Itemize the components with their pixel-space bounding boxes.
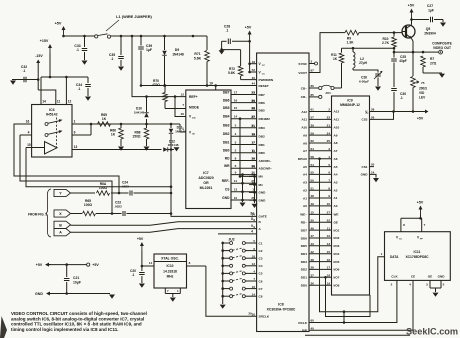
svg-text:DB2: DB2 xyxy=(259,135,265,139)
wire CR stub xyxy=(309,96,319,98)
svg-text:14: 14 xyxy=(371,170,375,174)
svg-text:27: 27 xyxy=(252,115,256,119)
svg-text:MM6264P-12: MM6264P-12 xyxy=(340,103,360,107)
wire +15V rail xyxy=(41,76,88,78)
capacitor C33 xyxy=(84,36,86,47)
svg-text:DD2: DD2 xyxy=(301,268,307,272)
svg-text:IC8: IC8 xyxy=(278,303,284,307)
svg-text:11: 11 xyxy=(327,226,331,230)
diode D11 xyxy=(170,124,172,128)
svg-text:+5V: +5V xyxy=(36,263,43,267)
wire IC6 pin 11 stub xyxy=(55,98,57,105)
svg-text:1.3K: 1.3K xyxy=(347,41,355,45)
svg-text:DD1: DD1 xyxy=(301,276,307,280)
svg-text:SeekIC.com: SeekIC.com xyxy=(406,327,458,337)
svg-text:A11: A11 xyxy=(301,118,307,122)
svg-text:40: 40 xyxy=(252,76,256,80)
svg-text:CS: CS xyxy=(225,188,230,192)
wire I/O4 bus IC8-IC9 xyxy=(309,253,332,255)
svg-text:1N4148: 1N4148 xyxy=(168,143,179,147)
svg-text:I/O1: I/O1 xyxy=(334,228,340,232)
svg-text:21: 21 xyxy=(252,124,256,128)
svg-text:WE~: WE~ xyxy=(300,213,307,217)
svg-text:IC7: IC7 xyxy=(203,171,209,175)
wire M0 M1 GND GND ground tie xyxy=(240,175,257,177)
svg-text:18: 18 xyxy=(327,274,331,278)
svg-text:IC6: IC6 xyxy=(49,108,55,112)
svg-text:CB~: CB~ xyxy=(301,86,307,90)
wire I/O6 bus IC8-IC9 xyxy=(309,268,332,270)
wire DB4 M2 tie xyxy=(239,119,241,177)
capacitor C28 xyxy=(232,40,250,42)
svg-text:I/O5: I/O5 xyxy=(334,260,340,264)
inductor L2 xyxy=(352,48,354,52)
wire emitter node xyxy=(394,51,413,53)
wire DB4 bus IC7-IC8 xyxy=(231,118,257,120)
op-amp U IC6 IH5142 box xyxy=(32,105,72,158)
svg-text:IC10: IC10 xyxy=(167,264,174,268)
svg-text:A7: A7 xyxy=(303,149,307,153)
svg-text:14: 14 xyxy=(42,100,46,104)
svg-text:timing control logic implement: timing control logic implemented via IC8… xyxy=(11,327,119,332)
wire I/O1 bus IC8-IC9 xyxy=(309,229,332,231)
svg-text:1: 1 xyxy=(182,127,184,131)
svg-text:150Ω: 150Ω xyxy=(132,135,141,139)
switch JU2-6 xyxy=(221,280,224,283)
wire CS2 tie xyxy=(370,112,394,120)
svg-text:20: 20 xyxy=(371,163,375,167)
svg-text:ADCWR~: ADCWR~ xyxy=(259,167,273,171)
svg-text:A8: A8 xyxy=(334,141,338,145)
svg-text:-15V: -15V xyxy=(35,54,43,58)
svg-text:LEV: LEV xyxy=(419,96,426,100)
svg-text:A11: A11 xyxy=(334,118,340,122)
svg-text:C3: C3 xyxy=(259,257,263,261)
svg-text:A4: A4 xyxy=(334,173,338,177)
svg-text:27μH: 27μH xyxy=(359,61,367,65)
svg-text:A9: A9 xyxy=(303,133,307,137)
svg-text:C21: C21 xyxy=(73,276,79,280)
svg-text:DCLK: DCLK xyxy=(298,321,307,325)
svg-text:43pF: 43pF xyxy=(399,59,406,63)
svg-text:DB6: DB6 xyxy=(259,101,265,105)
svg-text:A2: A2 xyxy=(334,188,338,192)
wire bottom stub xyxy=(305,334,410,336)
svg-text:21: 21 xyxy=(327,123,331,127)
svg-text:ML2261: ML2261 xyxy=(200,186,213,190)
capacitor C24 xyxy=(129,191,131,196)
wire V_IN to IC7 xyxy=(180,124,186,132)
wire CS1 stub xyxy=(370,166,375,168)
resistor R10 xyxy=(393,33,395,37)
wire A5 bus IC8-IC9 xyxy=(309,166,332,168)
svg-text:C4: C4 xyxy=(259,264,263,268)
svg-text:200Ω: 200Ω xyxy=(419,87,427,91)
svg-text:.1: .1 xyxy=(132,273,135,277)
wire A11 bus IC8-IC9 xyxy=(309,118,332,120)
op-amp U IC9 MM6264 box xyxy=(332,96,370,295)
wire +5V aux rail xyxy=(46,264,87,266)
wire D/P to CE xyxy=(309,280,413,330)
svg-text:L1 (WIRE JUMPER): L1 (WIRE JUMPER) xyxy=(116,14,152,19)
ground IC9 GND xyxy=(370,174,377,177)
svg-text:13: 13 xyxy=(327,242,331,246)
svg-text:17: 17 xyxy=(252,141,256,145)
wire DB6 bus IC7-IC8 xyxy=(231,102,257,104)
svg-text:DB5: DB5 xyxy=(223,106,230,110)
capacitor C27 xyxy=(411,19,430,21)
wire A2 bus IC8-IC9 xyxy=(309,189,332,191)
switch JU2-3 xyxy=(221,257,224,260)
svg-text:1K: 1K xyxy=(333,57,338,61)
svg-text:+5V: +5V xyxy=(408,4,415,8)
svg-text:DD0: DD0 xyxy=(301,284,307,288)
svg-text:100Ω: 100Ω xyxy=(84,203,93,207)
wire to GATE xyxy=(171,153,257,217)
resistor R65b xyxy=(83,211,96,216)
svg-text:24: 24 xyxy=(327,131,331,135)
svg-text:C2: C2 xyxy=(259,249,263,253)
svg-text:A0: A0 xyxy=(334,204,338,208)
svg-text:.1: .1 xyxy=(400,96,403,100)
jumper L1 (wire jumper) xyxy=(95,35,98,38)
IC6 pin 16 wire xyxy=(14,123,32,125)
switch JU2-1 xyxy=(221,242,224,245)
svg-text:DATA: DATA xyxy=(390,255,399,259)
svg-text:C7: C7 xyxy=(259,287,263,291)
svg-text:DB1: DB1 xyxy=(223,140,230,144)
svg-text:15: 15 xyxy=(234,106,238,110)
wire OE bus IC8-IC9 xyxy=(309,221,332,223)
svg-text:18: 18 xyxy=(252,60,256,64)
svg-text:A5: A5 xyxy=(334,165,338,169)
svg-text:15: 15 xyxy=(327,250,331,254)
wire RESET net xyxy=(141,85,257,87)
wire DB5 bus IC7-IC8 xyxy=(231,109,257,111)
wire DP/A6 to DATA loop xyxy=(320,159,385,312)
svg-text:A2: A2 xyxy=(303,189,307,193)
resistor R11 xyxy=(341,48,343,52)
wire WE bus IC8-IC9 xyxy=(309,213,332,215)
switch JU2-2 xyxy=(221,249,224,252)
wire DB1 bus IC7-IC8 xyxy=(231,144,257,146)
capacitor C23 xyxy=(122,211,124,216)
wire VDD stub xyxy=(175,97,186,117)
svg-text:19: 19 xyxy=(327,281,331,285)
svg-text:I/O2: I/O2 xyxy=(334,236,340,240)
svg-text:XC1765DPD8C: XC1765DPD8C xyxy=(405,255,429,259)
wire DB0 bus IC7-IC8 xyxy=(231,152,257,154)
svg-text:.1: .1 xyxy=(111,57,114,61)
svg-text:13: 13 xyxy=(74,145,78,149)
svg-text:A3: A3 xyxy=(334,181,338,185)
wire DCLK to CLK xyxy=(309,280,397,322)
svg-text:28: 28 xyxy=(252,107,256,111)
wire A4 bus IC8-IC9 xyxy=(309,173,332,175)
wire -15V to IC6 pin 11 xyxy=(38,90,56,98)
svg-text:25: 25 xyxy=(327,139,331,143)
svg-text:5.6K: 5.6K xyxy=(194,57,202,61)
wire OE GND ground xyxy=(429,280,431,288)
svg-text:DB1: DB1 xyxy=(259,143,265,147)
svg-text:CC: CC xyxy=(399,239,403,241)
IC6 pin 15 wire xyxy=(26,147,45,149)
svg-text:D9: D9 xyxy=(175,48,180,52)
svg-text:+5V: +5V xyxy=(55,22,62,26)
svg-text:I/O7: I/O7 xyxy=(334,276,340,280)
svg-text:JU1: JU1 xyxy=(325,91,331,95)
svg-text:1N4148: 1N4148 xyxy=(172,53,184,57)
svg-text:ADC0820: ADC0820 xyxy=(198,176,213,180)
resistor R66 xyxy=(120,124,122,128)
svg-text:19: 19 xyxy=(209,82,213,86)
svg-text:XC3030A-7PC68C: XC3030A-7PC68C xyxy=(267,308,296,312)
wire feedback pin15 loop xyxy=(26,148,171,187)
svg-text:CLK: CLK xyxy=(391,275,398,279)
buffer triangle inside IC6 xyxy=(45,142,58,155)
svg-text:14: 14 xyxy=(234,115,238,119)
svg-text:12: 12 xyxy=(327,234,331,238)
svg-text:I/O8: I/O8 xyxy=(334,283,340,287)
node A input tag xyxy=(54,229,71,236)
svg-text:DD7: DD7 xyxy=(301,228,307,232)
svg-text:DB0: DB0 xyxy=(259,151,265,155)
op-amp U IC7 ADC0820 box xyxy=(186,90,231,209)
svg-text:A1: A1 xyxy=(303,196,307,200)
svg-text:.1: .1 xyxy=(76,48,79,52)
svg-text:GND: GND xyxy=(35,292,43,296)
svg-text:WR: WR xyxy=(224,164,230,168)
svg-text:A3: A3 xyxy=(303,181,307,185)
capacitor C34 xyxy=(87,77,89,83)
svg-text:1: 1 xyxy=(74,120,76,124)
svg-text:A5: A5 xyxy=(303,165,307,169)
svg-text:+5V: +5V xyxy=(417,201,424,205)
svg-text:C8: C8 xyxy=(259,295,263,299)
switch JU2-8 xyxy=(221,295,224,298)
svg-text:R7: R7 xyxy=(430,57,434,61)
switch JU2-7 xyxy=(221,287,224,290)
svg-text:PWRDWN: PWRDWN xyxy=(259,78,274,82)
svg-text:A4: A4 xyxy=(303,173,307,177)
svg-text:12: 12 xyxy=(68,100,72,104)
resistor R64 xyxy=(97,191,110,196)
wire DB3 bus IC7-IC8 xyxy=(231,127,257,129)
svg-text:CC: CC xyxy=(365,113,369,115)
svg-text:1μF: 1μF xyxy=(146,48,152,52)
svg-text:10: 10 xyxy=(327,202,331,206)
wire A8 bus IC8-IC9 xyxy=(309,142,332,144)
switch contacts inside IC6 xyxy=(45,123,48,126)
svg-text:6-50pF: 6-50pF xyxy=(359,80,369,84)
svg-text:DB3: DB3 xyxy=(223,124,230,128)
wire DB7 bus IC7-IC8 xyxy=(231,94,257,96)
wire I/O7 bus IC8-IC9 xyxy=(309,276,332,278)
svg-text:FROM FIG. 3: FROM FIG. 3 xyxy=(28,212,47,216)
svg-text:CS2: CS2 xyxy=(361,118,367,122)
svg-text:B: B xyxy=(59,223,62,227)
IC6 pin 13 wire xyxy=(72,149,162,151)
svg-text:DB3: DB3 xyxy=(259,126,265,130)
svg-text:19: 19 xyxy=(252,133,256,137)
svg-text:REF-: REF- xyxy=(222,179,230,183)
svg-text:2N3904: 2N3904 xyxy=(424,32,436,36)
svg-text:4: 4 xyxy=(251,230,253,234)
svg-text:VOUT: VOUT xyxy=(298,71,307,75)
svg-text:A1: A1 xyxy=(334,196,338,200)
svg-text:DB5: DB5 xyxy=(259,109,265,113)
svg-text:A10: A10 xyxy=(301,126,307,130)
svg-text:JU2: JU2 xyxy=(228,238,234,242)
svg-text:27Ω: 27Ω xyxy=(430,62,437,66)
svg-text:DP/A6: DP/A6 xyxy=(298,157,307,161)
svg-text:RESET: RESET xyxy=(259,84,269,88)
svg-text:M1: M1 xyxy=(259,183,264,187)
wire IC9 bottom stub xyxy=(343,312,345,323)
svg-text:5.6K: 5.6K xyxy=(228,71,236,75)
svg-text:10: 10 xyxy=(234,196,238,200)
wire I/O2 bus IC8-IC9 xyxy=(309,237,332,239)
svg-text:DB2: DB2 xyxy=(223,132,230,136)
capacitor C32 xyxy=(16,79,38,81)
svg-text:DB4: DB4 xyxy=(223,115,230,119)
wire Y line xyxy=(71,192,96,194)
svg-text:470Ω: 470Ω xyxy=(152,83,160,87)
svg-text:A0: A0 xyxy=(303,204,307,208)
svg-text:R71: R71 xyxy=(194,52,200,56)
wire A7 bus IC8-IC9 xyxy=(309,150,332,152)
wire tank branch xyxy=(342,47,395,49)
capacitor C26 trimmer xyxy=(353,70,378,73)
svg-text:23: 23 xyxy=(252,91,256,95)
svg-text:75: 75 xyxy=(421,81,425,85)
svg-text:A6: A6 xyxy=(334,157,338,161)
svg-text:30: 30 xyxy=(248,312,252,316)
svg-text:VIDEO OUT: VIDEO OUT xyxy=(433,46,451,50)
svg-text:+15V: +15V xyxy=(40,39,49,43)
svg-text:I/O6: I/O6 xyxy=(334,268,340,272)
svg-text:DB7: DB7 xyxy=(223,90,230,94)
svg-text:DB7: DB7 xyxy=(259,93,265,97)
svg-text:SYNC: SYNC xyxy=(298,62,307,66)
svg-text:IC11: IC11 xyxy=(414,250,421,254)
svg-text:1N4148: 1N4148 xyxy=(134,111,145,115)
svg-text:17: 17 xyxy=(234,90,238,94)
svg-text:A12: A12 xyxy=(334,110,340,114)
potentiometer VID LEV xyxy=(412,52,414,76)
svg-text:CC: CC xyxy=(262,65,266,67)
svg-text:27: 27 xyxy=(327,211,331,215)
wire IC7 lower pins xyxy=(231,174,257,176)
wire A line to IC8 xyxy=(71,229,257,233)
svg-text:CS1: CS1 xyxy=(361,165,367,169)
svg-text:10μF: 10μF xyxy=(73,281,81,285)
svg-text:26: 26 xyxy=(252,99,256,103)
svg-text:I/O4: I/O4 xyxy=(334,252,340,256)
wire IC6 pin 14 stub xyxy=(40,77,42,105)
svg-text:GND: GND xyxy=(222,196,230,200)
wire REF+ riser xyxy=(132,36,186,97)
svg-text:13: 13 xyxy=(234,188,238,192)
svg-text:16: 16 xyxy=(26,120,30,124)
svg-text:16: 16 xyxy=(327,258,331,262)
svg-text:OE: OE xyxy=(334,220,338,224)
wire VCC to +5V xyxy=(370,111,426,113)
wire A0 bus IC8-IC9 xyxy=(309,205,332,207)
svg-text:1μF: 1μF xyxy=(428,9,434,13)
svg-text:52: 52 xyxy=(252,68,256,72)
jumper JU1 on CB line xyxy=(309,87,319,89)
svg-text:RD~: RD~ xyxy=(301,221,307,225)
svg-text:A12: A12 xyxy=(301,110,307,114)
wire MODE with resistor R70 xyxy=(164,86,166,93)
op-amp U IC10 xtal osc box xyxy=(154,254,187,288)
svg-text:44: 44 xyxy=(252,82,256,86)
wire A3 bus IC8-IC9 xyxy=(309,181,332,183)
svg-text:11: 11 xyxy=(252,149,256,153)
svg-text:A10: A10 xyxy=(334,125,340,129)
svg-text:DB6: DB6 xyxy=(223,98,230,102)
wire feedback pin16 loop xyxy=(14,124,119,193)
svg-text:REF+: REF+ xyxy=(189,95,198,99)
op-amp U IC8 XC3030A box xyxy=(257,53,309,332)
node Y input tag xyxy=(54,189,71,196)
op-amp U IC11 XC1765 box xyxy=(385,232,451,281)
svg-text:A: A xyxy=(59,231,62,235)
svg-text:VID: VID xyxy=(419,91,425,95)
svg-text:MHz: MHz xyxy=(167,275,174,279)
wire VOUT riser xyxy=(309,33,336,73)
IC6 pin 4 wire xyxy=(20,134,32,136)
svg-text:39: 39 xyxy=(252,157,256,161)
svg-text:CR~: CR~ xyxy=(301,95,307,99)
capacitor C35 xyxy=(120,36,122,55)
pin 19 stub of IC7 xyxy=(215,86,217,91)
wire +5V top rail xyxy=(64,35,95,37)
wire I/O3 bus IC8-IC9 xyxy=(309,245,332,247)
resistor R71 xyxy=(206,36,208,50)
svg-text:28: 28 xyxy=(371,108,375,112)
svg-text:GND: GND xyxy=(259,199,267,203)
wire IC10 output pin 8 to SRCLK xyxy=(187,265,206,267)
diode D9 xyxy=(164,36,166,50)
svg-text:26: 26 xyxy=(371,115,375,119)
svg-text:A9: A9 xyxy=(334,133,338,137)
svg-text:CE: CE xyxy=(411,275,415,279)
transistor Q2 Q5 2N3904 xyxy=(402,25,415,38)
svg-text:36: 36 xyxy=(252,165,256,169)
svg-text:A7: A7 xyxy=(334,149,338,153)
svg-text:+5V: +5V xyxy=(92,263,99,267)
wire I/O7 loop xyxy=(326,277,371,316)
svg-text:GND: GND xyxy=(438,275,446,279)
svg-text:DD6: DD6 xyxy=(301,236,307,240)
svg-text:XTAL OSC.: XTAL OSC. xyxy=(161,257,179,261)
svg-text:WE: WE xyxy=(334,213,339,217)
svg-text:DB0: DB0 xyxy=(223,149,230,153)
ground IC10 pins 7 1 xyxy=(164,288,166,294)
wire A12 bus IC8-IC9 xyxy=(309,111,332,113)
svg-text:GND: GND xyxy=(259,191,267,195)
svg-text:2.7K: 2.7K xyxy=(382,41,390,45)
svg-text:GND: GND xyxy=(361,173,369,177)
svg-text:.1: .1 xyxy=(78,87,81,91)
svg-text:11: 11 xyxy=(57,100,61,104)
svg-text:DD: DD xyxy=(192,118,196,120)
svg-text:GATE: GATE xyxy=(259,215,267,219)
IC6 pin 1 and 9 tie xyxy=(72,123,91,125)
svg-text:OE: OE xyxy=(428,275,432,279)
